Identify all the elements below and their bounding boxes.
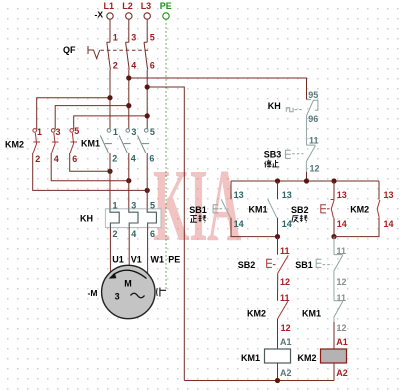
wire PE dotted <box>165 19 167 290</box>
svg-text:QF: QF <box>63 45 76 55</box>
wire L2 QF to KM1 <box>128 70 130 129</box>
svg-text:KH: KH <box>268 101 281 111</box>
contactor KM1 NC interlock contact closed <box>334 301 343 318</box>
svg-text:KM2: KM2 <box>350 204 369 214</box>
svg-text:2: 2 <box>35 154 40 164</box>
terminal PE <box>163 13 169 19</box>
junction U crossover <box>107 169 112 174</box>
svg-text:11: 11 <box>309 136 319 146</box>
svg-text:2: 2 <box>112 154 117 164</box>
wire SB3 to rail <box>305 162 307 172</box>
svg-text:A2: A2 <box>336 368 348 378</box>
svg-text:13: 13 <box>384 190 394 200</box>
wire SB1 NC to KM1 NC <box>333 271 335 301</box>
junction left rail L3 <box>145 84 150 89</box>
svg-text:12: 12 <box>337 323 347 333</box>
wire tap L1 to KM2 pole1 <box>37 98 110 129</box>
svg-text:12: 12 <box>281 323 291 333</box>
svg-text:5: 5 <box>150 32 155 42</box>
svg-text:2: 2 <box>113 61 118 71</box>
wire V phase KM1 to KH <box>128 153 130 212</box>
KM2 pole 1 contact <box>33 129 37 133</box>
breaker QF operator <box>88 46 100 59</box>
svg-text:1: 1 <box>37 127 42 137</box>
svg-text:M: M <box>124 278 132 288</box>
svg-text:SB1: SB1 <box>295 260 313 270</box>
svg-text:96: 96 <box>308 114 318 124</box>
motor rotation arrow <box>113 270 147 278</box>
svg-text:1: 1 <box>113 201 118 211</box>
svg-text:L1: L1 <box>104 1 115 11</box>
svg-text:4: 4 <box>131 154 136 164</box>
contactor KM2 NC interlock contact open <box>278 301 288 319</box>
svg-text:SB3: SB3 <box>264 150 282 160</box>
wire V to motor <box>128 228 130 266</box>
wire KM2 out 6 to U phase <box>70 153 110 171</box>
terminal L1 <box>107 13 113 19</box>
junction L2 tap <box>126 103 131 108</box>
svg-text:KM1: KM1 <box>302 309 321 319</box>
wire KM2 aux stub <box>378 181 380 200</box>
wire KM1 aux to merge <box>277 218 279 237</box>
svg-text:W1: W1 <box>151 254 165 264</box>
svg-text:12: 12 <box>337 277 347 287</box>
svg-text:KM1: KM1 <box>249 204 268 214</box>
wire U phase KM1 to KH <box>109 153 111 212</box>
button SB1 NO contact <box>221 199 230 218</box>
svg-text:SB2: SB2 <box>291 205 309 215</box>
svg-text:12: 12 <box>280 277 290 287</box>
svg-text:5: 5 <box>150 201 155 211</box>
motor M1 body <box>102 265 155 318</box>
motor tilde <box>131 293 145 298</box>
wire L1 QF to KM1 <box>109 70 111 129</box>
wire KM2 out 2 to W phase <box>33 153 148 191</box>
svg-text:4: 4 <box>131 229 136 239</box>
wire U to motor <box>109 228 111 273</box>
svg-text:3: 3 <box>131 32 136 42</box>
thermal NC contact KH <box>306 100 318 117</box>
svg-text:13: 13 <box>282 190 292 200</box>
wire L3 QF to KM1 <box>146 70 148 129</box>
wire control feed from L2 <box>129 78 307 100</box>
junction L1 tap <box>107 95 112 100</box>
junction SB1-KM1 merge <box>275 234 280 239</box>
wire W to motor <box>147 228 149 274</box>
wire W phase KM1 to KH <box>146 153 148 212</box>
svg-text:5: 5 <box>150 127 155 137</box>
wire L3 to QF <box>146 20 148 43</box>
wire tap L3 to KM2 pole3 <box>74 116 148 129</box>
thermal relay KH body <box>105 209 161 228</box>
junction V crossover <box>126 178 131 183</box>
motor PE connection <box>160 288 166 297</box>
svg-text:V1: V1 <box>131 254 142 264</box>
svg-text:A2: A2 <box>280 368 292 378</box>
contactor KM1 linkage <box>105 143 149 145</box>
svg-text:5: 5 <box>74 126 79 136</box>
wire SB2 to merge <box>333 218 335 237</box>
KH heater pole 3 <box>147 209 156 228</box>
KH heater pole 2 <box>129 209 138 228</box>
svg-text:3: 3 <box>56 127 61 137</box>
wire left rail from L3 <box>147 87 184 381</box>
svg-text:12: 12 <box>310 163 320 173</box>
KM2 pole 2 contact <box>51 129 55 133</box>
svg-text:KM1: KM1 <box>241 353 260 363</box>
junction rail KM1 branch <box>275 178 280 183</box>
junction L3 tap <box>145 113 150 118</box>
svg-text:2: 2 <box>113 229 118 239</box>
wire L2 to QF <box>128 20 130 43</box>
button SB2 NO contact closed <box>331 200 335 218</box>
KM1 pole 1 contact <box>107 129 111 133</box>
svg-text:3: 3 <box>115 291 120 301</box>
wire SB1 branch stub <box>230 181 232 199</box>
svg-text:KM2: KM2 <box>298 353 317 363</box>
coil KM2 <box>321 349 347 363</box>
svg-text:A1: A1 <box>280 337 292 347</box>
label 正转 forward <box>190 215 206 223</box>
svg-text:KH: KH <box>80 214 93 224</box>
contactor KM2 linkage <box>33 141 77 143</box>
svg-text:14: 14 <box>282 219 292 229</box>
junction rail SB3 <box>304 178 309 183</box>
svg-text:11: 11 <box>280 246 290 256</box>
wire SB1 to merge <box>231 218 278 237</box>
wire tap L2 to KM2 pole2 <box>55 106 129 129</box>
watermark KIA <box>153 148 241 263</box>
junction control feed L2 <box>126 75 131 80</box>
terminal L3 <box>144 13 150 19</box>
svg-text:A1: A1 <box>336 337 348 347</box>
svg-text:3: 3 <box>131 201 136 211</box>
svg-text:13: 13 <box>337 190 347 200</box>
wire coil KM1 to bottom rail <box>277 363 279 381</box>
wire KM1 NC to coil KM2 <box>333 318 335 323</box>
svg-text:11: 11 <box>280 293 290 303</box>
wire merge to SB1 NC <box>333 237 335 255</box>
wire KM2 out 4 to V phase <box>51 153 129 181</box>
wire KM1 aux stub <box>277 181 279 199</box>
svg-text:6: 6 <box>150 229 155 239</box>
svg-text:1: 1 <box>113 32 118 42</box>
breaker QF pole 3 <box>144 42 148 69</box>
svg-text:14: 14 <box>234 219 244 229</box>
junction rail SB2 branch <box>331 178 336 183</box>
label 停止 stop <box>265 160 280 168</box>
wire KM2 NC to coil KM1 <box>277 319 279 349</box>
wire L1 to QF <box>109 20 111 43</box>
svg-text:6: 6 <box>149 154 154 164</box>
svg-text:95: 95 <box>308 90 318 100</box>
svg-text:KM2: KM2 <box>247 309 266 319</box>
breaker QF pole 1 <box>107 42 111 69</box>
wire KM2 aux to merge <box>334 218 379 237</box>
button SB3 NC contact <box>306 145 315 162</box>
svg-text:PE: PE <box>168 254 180 264</box>
svg-text:KM2: KM2 <box>5 140 24 150</box>
svg-text:6: 6 <box>72 154 77 164</box>
svg-text:U1: U1 <box>112 254 124 264</box>
svg-text:4: 4 <box>131 61 136 71</box>
label 反转 reverse <box>292 215 308 223</box>
button SB1 NC contact closed <box>334 255 343 272</box>
svg-text:1: 1 <box>113 127 118 137</box>
contactor KM1 aux NO contact <box>268 199 277 218</box>
svg-text:-X: -X <box>95 10 104 20</box>
svg-text:3: 3 <box>131 127 136 137</box>
svg-text:L3: L3 <box>141 1 152 11</box>
coil KM1 <box>265 349 291 363</box>
junction SB2-KM2 merge <box>331 234 336 239</box>
wire control top rail <box>231 180 379 182</box>
KH heater pole 1 <box>110 209 119 228</box>
KM1 pole 3 contact <box>144 129 148 133</box>
wire coil KM2 to bottom rail <box>333 363 335 381</box>
wire SB2 NC to KM2 NC <box>277 273 279 301</box>
svg-text:6: 6 <box>150 61 155 71</box>
wire KH to SB3 <box>306 117 308 146</box>
svg-text:14: 14 <box>337 219 347 229</box>
KM1 pole 2 contact <box>126 129 130 133</box>
svg-text:SB1: SB1 <box>189 205 207 215</box>
svg-text:-M: -M <box>88 288 98 298</box>
terminal L2 <box>126 13 132 19</box>
svg-text:13: 13 <box>234 190 244 200</box>
junction bottom rail KM1 coil <box>275 378 280 383</box>
svg-text:PE: PE <box>160 1 172 11</box>
svg-text:4: 4 <box>54 154 59 164</box>
contactor KM2 aux NO contact closed <box>377 200 380 218</box>
button SB2 NC contact open <box>278 255 288 273</box>
breaker QF pole 2 <box>126 42 130 69</box>
wire merge to SB2 NC <box>277 237 279 255</box>
junction W crossover <box>145 188 150 193</box>
wire SB2 branch stub <box>333 181 335 200</box>
svg-text:KM1: KM1 <box>81 139 100 149</box>
svg-text:14: 14 <box>384 219 394 229</box>
svg-text:L2: L2 <box>122 1 133 11</box>
breaker QF linkage <box>101 49 150 51</box>
svg-text:SB2: SB2 <box>238 260 256 270</box>
KM2 pole 3 contact <box>70 129 74 133</box>
wire control bottom rail <box>184 380 334 382</box>
